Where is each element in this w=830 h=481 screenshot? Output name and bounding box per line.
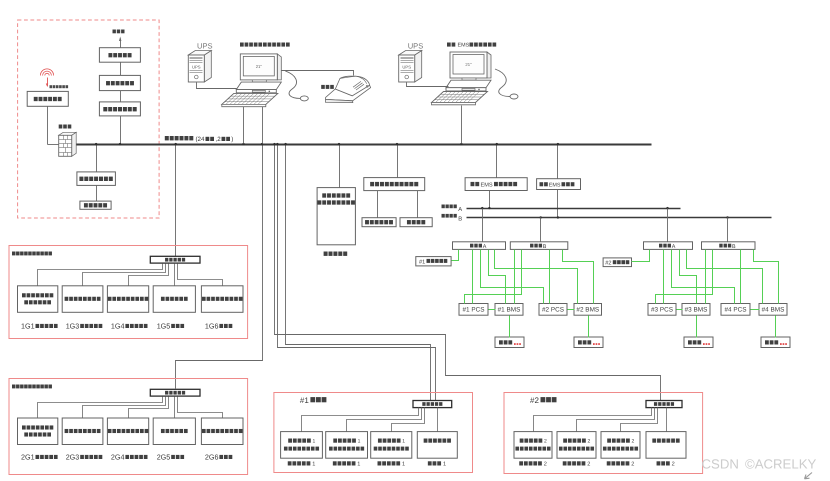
svg-text:,2: ,2 bbox=[216, 136, 222, 143]
svg-text:A: A bbox=[672, 244, 676, 250]
svg-text:#1: #1 bbox=[300, 396, 309, 405]
svg-text:2G5: 2G5 bbox=[157, 453, 171, 462]
svg-text:2G3: 2G3 bbox=[66, 453, 80, 462]
svg-text:1: 1 bbox=[313, 439, 316, 445]
svg-text:2: 2 bbox=[588, 439, 591, 445]
svg-text:#4 BMS: #4 BMS bbox=[762, 307, 785, 314]
svg-text:2G6: 2G6 bbox=[205, 453, 219, 462]
svg-text:2G1: 2G1 bbox=[21, 453, 35, 462]
svg-text:EMS: EMS bbox=[481, 182, 493, 188]
svg-text:#3 PCS: #3 PCS bbox=[651, 307, 673, 314]
svg-text:#2: #2 bbox=[530, 396, 539, 405]
svg-text:B: B bbox=[458, 217, 462, 223]
svg-text:CSDN: CSDN bbox=[702, 457, 739, 472]
svg-text:21": 21" bbox=[465, 62, 472, 67]
svg-text:A: A bbox=[458, 207, 462, 213]
svg-text:UPS: UPS bbox=[192, 65, 201, 70]
svg-text:1G5: 1G5 bbox=[157, 322, 171, 331]
svg-text:1G4: 1G4 bbox=[111, 322, 125, 331]
svg-text:1: 1 bbox=[402, 439, 405, 445]
svg-text:1: 1 bbox=[357, 462, 360, 468]
svg-text:#2: #2 bbox=[605, 261, 611, 267]
svg-text:2G4: 2G4 bbox=[111, 453, 125, 462]
svg-text:1: 1 bbox=[358, 439, 361, 445]
svg-text:): ) bbox=[231, 136, 233, 143]
svg-text:1: 1 bbox=[402, 462, 405, 468]
svg-text:#3 BMS: #3 BMS bbox=[685, 307, 708, 314]
svg-text:#2 BMS: #2 BMS bbox=[576, 307, 599, 314]
svg-text:B: B bbox=[732, 244, 736, 250]
svg-text:#2 PCS: #2 PCS bbox=[542, 307, 564, 314]
svg-text:UPS: UPS bbox=[408, 41, 424, 50]
svg-text:2: 2 bbox=[587, 462, 590, 468]
svg-text:UPS: UPS bbox=[402, 65, 411, 70]
svg-text:#1 PCS: #1 PCS bbox=[462, 307, 484, 314]
svg-text:21": 21" bbox=[256, 64, 263, 69]
svg-text:#1 BMS: #1 BMS bbox=[498, 307, 521, 314]
svg-text:B: B bbox=[543, 244, 547, 250]
svg-text:EMS: EMS bbox=[458, 43, 470, 49]
svg-text:EMS: EMS bbox=[549, 182, 561, 188]
svg-text:2: 2 bbox=[672, 462, 675, 468]
svg-text:A: A bbox=[483, 244, 487, 250]
svg-text:UPS: UPS bbox=[197, 41, 213, 50]
svg-text:1G6: 1G6 bbox=[205, 322, 219, 331]
svg-text:1G1: 1G1 bbox=[21, 322, 35, 331]
svg-text:©ACRELKY: ©ACRELKY bbox=[745, 457, 816, 472]
svg-text:1: 1 bbox=[312, 462, 315, 468]
svg-text:2: 2 bbox=[631, 462, 634, 468]
svg-text:2: 2 bbox=[544, 462, 547, 468]
svg-text:(24: (24 bbox=[196, 136, 206, 143]
svg-text:2: 2 bbox=[632, 439, 635, 445]
svg-text:2: 2 bbox=[544, 439, 547, 445]
svg-text:#1: #1 bbox=[419, 259, 425, 265]
svg-text:1G3: 1G3 bbox=[66, 322, 80, 331]
svg-text:1: 1 bbox=[443, 462, 446, 468]
svg-text:#4 PCS: #4 PCS bbox=[724, 307, 746, 314]
